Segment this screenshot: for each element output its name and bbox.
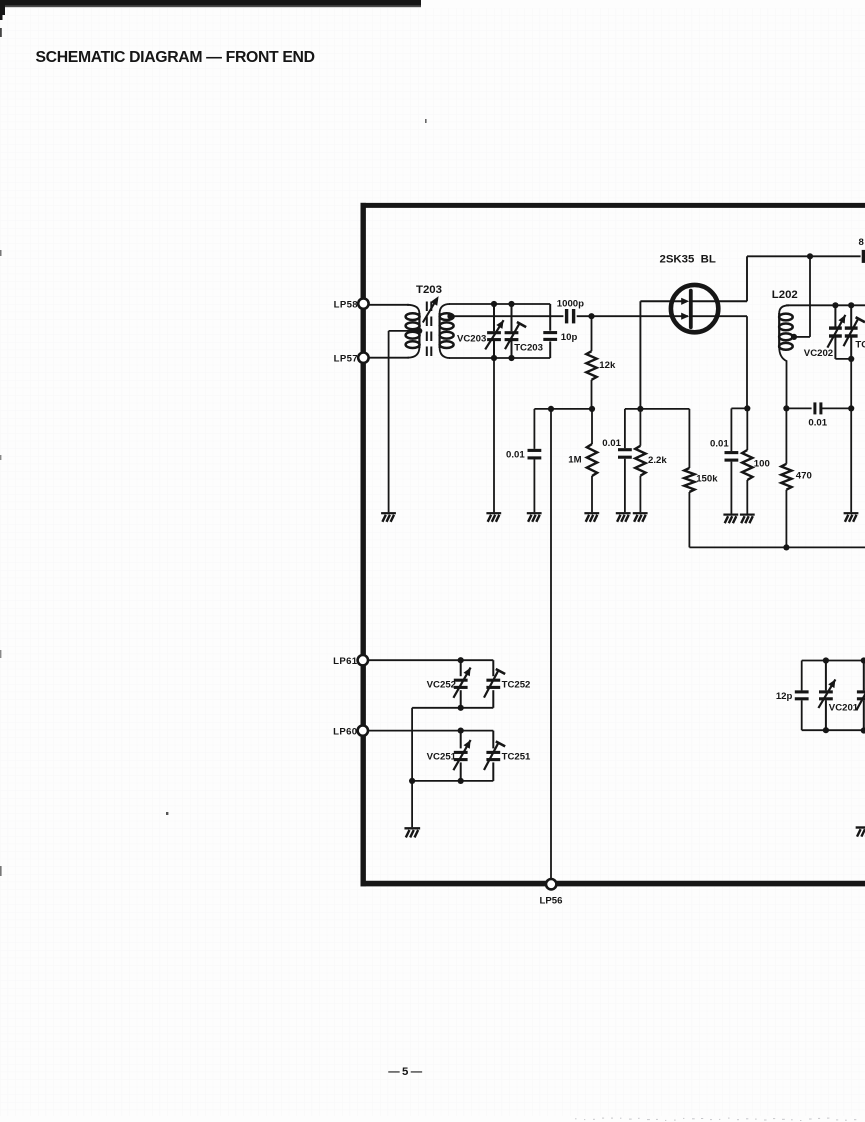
- svg-text:LP60: LP60: [333, 727, 357, 738]
- resistor 2.2k: [635, 409, 645, 512]
- junction VC203 bottom: [491, 355, 497, 361]
- trimmer capacitor TC251: [484, 731, 505, 781]
- L202 tap junction: [791, 334, 797, 340]
- variable capacitor VC201: [818, 661, 835, 731]
- wire VC201 box bottom: [802, 729, 865, 731]
- variable capacitor VC202: [827, 305, 845, 359]
- label VC201: [829, 703, 859, 714]
- trimmer capacitor TC202: [844, 305, 865, 359]
- label 2.2k: [648, 455, 667, 466]
- wire TC202 down to ground: [850, 359, 852, 512]
- svg-text:LP58: LP58: [334, 300, 359, 311]
- wire VC251 bottom rail: [412, 780, 493, 782]
- wire to lower ground: [411, 781, 413, 827]
- capacitor 0.01 (fourth, series): [808, 402, 827, 428]
- wire rail segment C: [731, 407, 747, 409]
- svg-text:0.01: 0.01: [506, 449, 525, 460]
- junction VC201 bottom: [823, 727, 829, 733]
- label 150k: [696, 473, 718, 484]
- junction long wire top: [548, 406, 554, 412]
- trimmer capacitor TC203: [505, 304, 527, 358]
- svg-text:TC252: TC252: [502, 679, 531, 690]
- trimmer capacitor TC201 (cut at edge): [857, 661, 865, 731]
- wire 150k bottom rail to right edge: [689, 546, 865, 548]
- wire VC202 box top rail: [786, 304, 865, 306]
- svg-text:TC202: TC202: [855, 339, 865, 350]
- FET 2SK35 body circle: [671, 285, 718, 332]
- terminal LP60: [333, 725, 368, 737]
- junction 470 top: [783, 405, 789, 411]
- svg-text:LP61: LP61: [333, 656, 358, 667]
- wire tank top rail: [449, 303, 550, 305]
- svg-text:SCHEMATIC DIAGRAM — FRONT END: SCHEMATIC DIAGRAM — FRONT END: [36, 49, 315, 66]
- trimmer capacitor TC252: [484, 660, 505, 708]
- scan specks: [0, 119, 427, 876]
- svg-text:1000p: 1000p: [557, 299, 584, 310]
- resistor 1M: [587, 409, 597, 512]
- svg-text:TC203: TC203: [514, 342, 543, 353]
- label VC202: [804, 348, 833, 359]
- title text: [36, 49, 315, 66]
- page number: [388, 1066, 422, 1078]
- junction TC203 top: [508, 301, 514, 307]
- resistor 150k: [684, 409, 694, 548]
- junction VC251 bottom: [458, 778, 464, 784]
- junction VC201 top: [823, 657, 829, 663]
- T203 primary tap junction: [416, 328, 422, 334]
- junction 1M top: [589, 406, 595, 412]
- ground below 0.01 third: [723, 515, 738, 524]
- label TC202: [855, 339, 865, 350]
- terminal LP57: [334, 353, 369, 365]
- terminal LP56: [540, 879, 563, 907]
- svg-text:12k: 12k: [599, 360, 616, 371]
- svg-text:0.01: 0.01: [710, 438, 729, 449]
- wire LP57 to T203 primary bottom: [368, 357, 409, 359]
- junction VC252 top: [458, 657, 464, 663]
- wire tank bottom to ground: [493, 358, 495, 512]
- capacitor at right edge (cut): [747, 237, 865, 263]
- svg-text:LP57: LP57: [334, 354, 358, 365]
- junction TC202 bottom: [848, 356, 854, 362]
- ground below TC202 line: [844, 513, 859, 522]
- wire L202 drop: [794, 256, 810, 337]
- resistor 470: [781, 408, 791, 547]
- junction TC203 bottom: [508, 355, 514, 361]
- resistor 100: [742, 408, 752, 513]
- junction 12k top: [588, 313, 594, 319]
- ground below 2.2k: [633, 513, 648, 522]
- schematic border frame: [361, 203, 865, 886]
- label 2SK35 BL: [660, 254, 716, 266]
- svg-text:2.2k: 2.2k: [648, 455, 667, 466]
- ground below 0.01 second: [616, 513, 631, 522]
- variable capacitor VC203: [485, 304, 503, 358]
- svg-text:VC203: VC203: [457, 333, 486, 344]
- svg-text:VC201: VC201: [829, 703, 859, 714]
- svg-text:VC202: VC202: [804, 348, 833, 359]
- FET gate arrow lower: [681, 313, 689, 320]
- ground below VC251 box: [404, 828, 420, 837]
- wire LP58 to T203 primary: [368, 304, 409, 306]
- wire T203 tap to ground: [389, 331, 420, 512]
- wire rail segment B: [625, 408, 690, 410]
- FET source lead lower-right: [692, 316, 747, 408]
- wire long drop to LP56: [550, 409, 552, 881]
- transformer T203 secondary winding: [440, 304, 454, 358]
- FET source lead upper-left: [640, 298, 689, 409]
- svg-text:2SK35 BL: 2SK35 BL: [660, 254, 716, 266]
- junction TC202 top: [848, 302, 854, 308]
- FET channel bar: [689, 291, 693, 328]
- ground below 1M: [584, 513, 599, 522]
- svg-text:0.01: 0.01: [602, 438, 621, 449]
- wire LP61 rail: [368, 659, 493, 661]
- junction VC203 top: [491, 301, 497, 307]
- junction VC202 top: [832, 302, 838, 308]
- scan noise bottom edge: [575, 1118, 856, 1121]
- svg-text:1M: 1M: [568, 454, 581, 465]
- capacitor 0.01 (first): [528, 409, 542, 512]
- ground below 100: [740, 515, 755, 524]
- svg-text:L202: L202: [772, 289, 798, 301]
- transformer T203 primary winding: [406, 305, 420, 358]
- label 10p: [561, 332, 578, 343]
- label VC251: [427, 752, 457, 763]
- label 470: [796, 470, 812, 481]
- wire tank bottom rail: [449, 357, 550, 359]
- terminal LP61: [333, 655, 368, 667]
- wire VC252 bottom rail: [412, 707, 493, 709]
- label TC252: [502, 679, 531, 690]
- junction box ground node: [409, 778, 415, 784]
- junction VC251 top: [458, 728, 464, 734]
- variable capacitor VC252: [453, 660, 470, 708]
- svg-text:100: 100: [754, 458, 770, 469]
- label 12p: [776, 691, 793, 702]
- label 0.01 second: [602, 438, 621, 449]
- FET drain lead upper-right: [692, 256, 747, 301]
- ground below T203: [381, 513, 396, 522]
- wire rail segment A: [534, 408, 592, 410]
- label L202: [772, 289, 798, 301]
- svg-text:8: 8: [859, 237, 865, 248]
- capacitor 10p: [543, 304, 557, 358]
- junction 470 bottom: [783, 544, 789, 550]
- wire rail segment D right: [822, 407, 851, 409]
- svg-text:470: 470: [796, 470, 812, 481]
- inductor L202: [779, 305, 793, 408]
- scan artifact black bar top: [0, 0, 421, 37]
- ground below tank: [486, 513, 501, 522]
- svg-text:VC251: VC251: [427, 752, 457, 763]
- label 0.01 first: [506, 449, 525, 460]
- junction top rail to L202: [807, 253, 813, 259]
- junction source node: [744, 405, 750, 411]
- transformer T203 core: [427, 302, 432, 360]
- label TC203: [514, 342, 543, 353]
- wire VC201 box top: [802, 660, 865, 662]
- svg-text:— 5 —: — 5 —: [388, 1066, 422, 1078]
- label 12k: [599, 360, 616, 371]
- svg-text:0.01: 0.01: [808, 417, 827, 428]
- svg-text:LP56: LP56: [540, 896, 563, 907]
- capacitor 1000p: [557, 299, 584, 324]
- svg-text:12p: 12p: [776, 691, 793, 702]
- junction 2.2k top: [637, 406, 643, 412]
- label TC251: [502, 752, 531, 763]
- svg-text:150k: 150k: [696, 473, 718, 484]
- ground at right edge (cut): [856, 828, 865, 837]
- label 100: [754, 458, 770, 469]
- wire LP60 rail: [368, 730, 493, 732]
- ground below 0.01 first: [527, 513, 542, 522]
- label VC252: [427, 679, 456, 690]
- label 0.01 third: [710, 438, 729, 449]
- label 1M: [568, 454, 581, 465]
- node secondary tap: [447, 313, 453, 319]
- capacitor 12p: [795, 661, 809, 731]
- wire drain top rail: [747, 255, 861, 257]
- transformer T203 tuning arrow: [423, 296, 439, 322]
- svg-text:T203: T203: [416, 284, 442, 296]
- wire 1000p to FET gate: [577, 315, 688, 317]
- wire rail segment D left: [786, 407, 811, 409]
- junction rail D right: [848, 405, 854, 411]
- wire VC202 box bottom: [835, 358, 851, 360]
- resistor 12k: [586, 316, 596, 409]
- junction TC201 top: [861, 657, 865, 663]
- wire box A down: [411, 708, 413, 781]
- label VC203: [457, 333, 486, 344]
- terminal LP58: [334, 298, 369, 310]
- capacitor 0.01 (second): [618, 409, 632, 512]
- label T203: [416, 284, 442, 296]
- capacitor 0.01 (third): [725, 408, 739, 513]
- wire secondary tap to 1000p: [451, 315, 564, 317]
- variable capacitor VC251: [453, 731, 470, 781]
- svg-text:VC252: VC252: [427, 679, 456, 690]
- svg-text:TC251: TC251: [502, 752, 531, 763]
- junction TC201 bottom: [861, 727, 865, 733]
- junction VC252 bottom: [458, 705, 464, 711]
- svg-text:10p: 10p: [561, 332, 578, 343]
